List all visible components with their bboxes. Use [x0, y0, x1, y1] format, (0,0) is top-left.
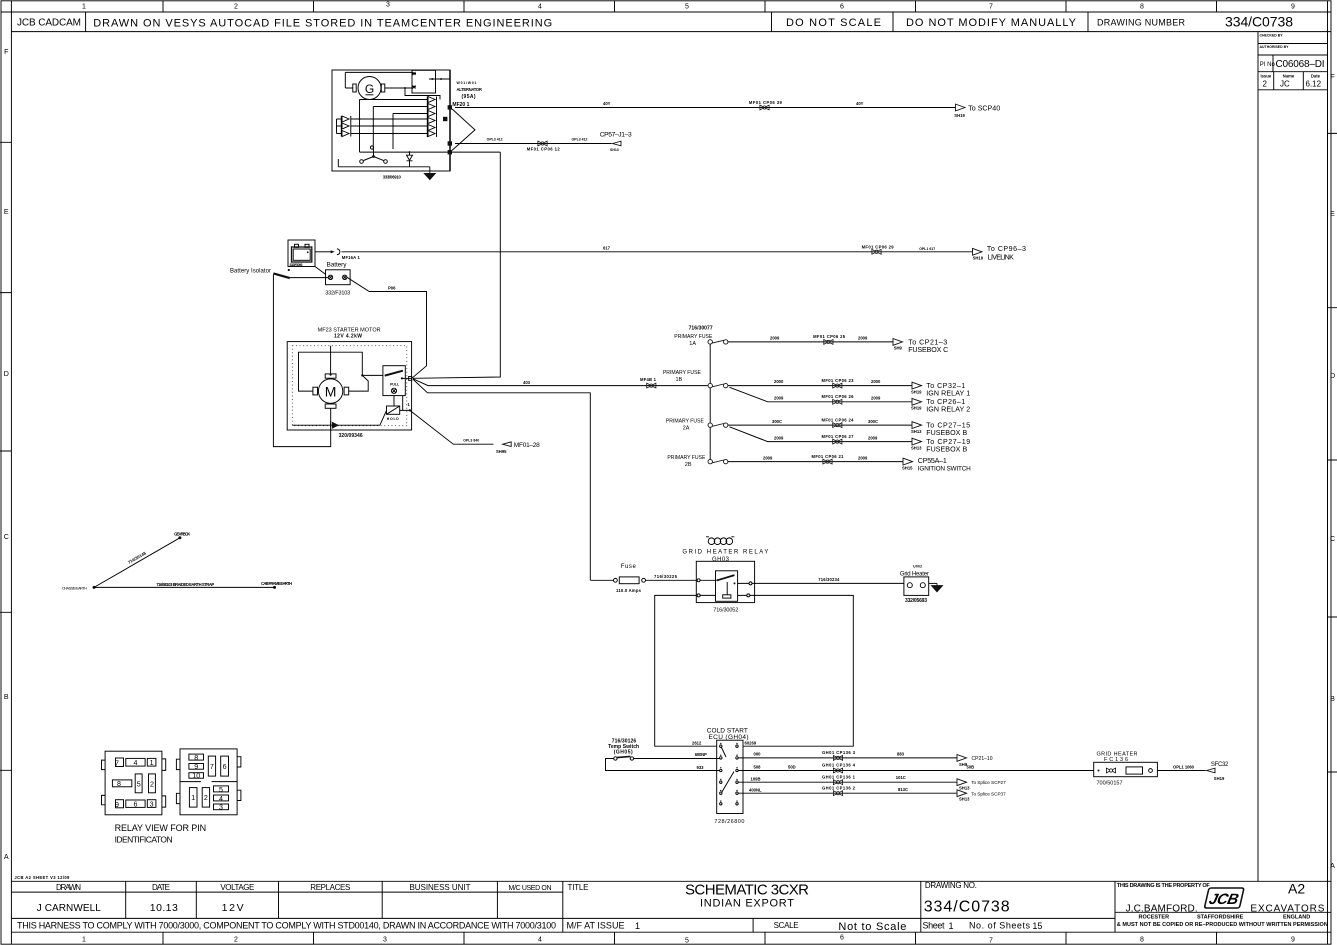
- svg-text:9: 9: [1291, 937, 1295, 944]
- svg-text:SCALE: SCALE: [774, 921, 799, 930]
- svg-text:Sheet: Sheet: [923, 921, 945, 931]
- svg-text:M: M: [325, 384, 337, 400]
- svg-text:716/30234: 716/30234: [818, 577, 840, 582]
- svg-text:12V: 12V: [222, 902, 244, 914]
- svg-text:2009: 2009: [858, 455, 868, 460]
- svg-text:MF01 CP06 25: MF01 CP06 25: [813, 334, 846, 339]
- svg-text:2009: 2009: [774, 435, 784, 440]
- svg-text:50B: 50B: [967, 765, 975, 770]
- svg-text:600NP: 600NP: [695, 752, 707, 757]
- svg-text:DO NOT SCALE: DO NOT SCALE: [786, 17, 881, 29]
- svg-text:JCB CADCAM: JCB CADCAM: [17, 18, 81, 29]
- svg-text:SH19: SH19: [954, 113, 965, 118]
- svg-text:9: 9: [1291, 4, 1295, 11]
- svg-text:SH19: SH19: [911, 406, 922, 411]
- svg-text:9: 9: [194, 763, 198, 771]
- svg-text:334/C0738: 334/C0738: [924, 899, 1010, 916]
- svg-text:2: 2: [234, 937, 238, 944]
- svg-text:SFC32: SFC32: [1211, 762, 1229, 768]
- svg-text:2009: 2009: [858, 336, 868, 341]
- svg-text:CAB FRAME EARTH: CAB FRAME EARTH: [261, 581, 292, 586]
- svg-text:SH15: SH15: [902, 466, 913, 471]
- svg-text:MF01 CP06 24: MF01 CP06 24: [822, 417, 855, 422]
- svg-text:4: 4: [538, 937, 542, 944]
- svg-text:1: 1: [150, 759, 154, 767]
- svg-text:No. of Sheets: No. of Sheets: [969, 921, 1031, 931]
- svg-text:60269: 60269: [745, 741, 757, 746]
- svg-text:8: 8: [117, 780, 121, 788]
- svg-text:D: D: [4, 370, 9, 378]
- svg-text:SH19: SH19: [1214, 776, 1225, 781]
- svg-text:101C: 101C: [896, 775, 906, 780]
- svg-text:DRAWN ON VESYS AUTOCAD FILE ST: DRAWN ON VESYS AUTOCAD FILE STORED IN TE…: [93, 18, 552, 30]
- svg-text:5: 5: [137, 780, 141, 788]
- svg-text:12V 4.2kW: 12V 4.2kW: [334, 333, 362, 339]
- svg-text:403: 403: [523, 380, 531, 385]
- svg-text:333/06910: 333/06910: [383, 175, 402, 180]
- svg-text:SH13: SH13: [911, 445, 922, 450]
- svg-text:508: 508: [754, 765, 762, 770]
- svg-text:4: 4: [134, 759, 138, 767]
- svg-text:MF20 1: MF20 1: [452, 102, 469, 108]
- svg-text:A: A: [1330, 862, 1335, 870]
- svg-text:40Y: 40Y: [603, 101, 611, 106]
- svg-text:OPL3 412: OPL3 412: [487, 138, 503, 142]
- svg-text:J CARNWELL: J CARNWELL: [37, 903, 101, 914]
- svg-text:110.0 Amps: 110.0 Amps: [616, 588, 642, 593]
- svg-text:RELAY VIEW FOR PIN: RELAY VIEW FOR PIN: [115, 823, 207, 833]
- svg-text:2: 2: [150, 780, 154, 788]
- svg-text:617: 617: [603, 246, 611, 251]
- svg-text:332/05693: 332/05693: [905, 598, 927, 604]
- svg-text:IGN RELAY 2: IGN RELAY 2: [926, 406, 970, 414]
- svg-text:PRIMARY FUSE: PRIMARY FUSE: [663, 370, 702, 376]
- svg-text:7: 7: [115, 760, 119, 768]
- svg-text:GEARBOX: GEARBOX: [174, 531, 190, 536]
- svg-text:MF01–28: MF01–28: [514, 442, 540, 449]
- svg-text:4: 4: [538, 4, 542, 11]
- svg-text:IDENTIFICATON: IDENTIFICATON: [115, 835, 173, 845]
- svg-text:109B: 109B: [751, 776, 761, 781]
- svg-text:2009: 2009: [868, 435, 878, 440]
- svg-text:SH13: SH13: [610, 148, 619, 152]
- svg-text:3: 3: [386, 2, 390, 9]
- svg-text:2: 2: [234, 4, 238, 11]
- svg-text:10: 10: [192, 772, 200, 780]
- svg-text:883: 883: [897, 752, 905, 757]
- svg-text:F: F: [4, 48, 9, 56]
- svg-text:C: C: [1330, 535, 1335, 543]
- svg-text:716/30077: 716/30077: [689, 326, 713, 332]
- svg-text:8: 8: [1140, 4, 1144, 11]
- svg-text:ROCESTER: ROCESTER: [1139, 914, 1170, 920]
- svg-text:OPL3 840: OPL3 840: [463, 439, 479, 443]
- svg-text:6.12: 6.12: [1306, 80, 1322, 89]
- svg-text:GH01 CP136 2: GH01 CP136 2: [822, 785, 856, 790]
- svg-text:1A: 1A: [689, 341, 696, 347]
- svg-text:& MUST NOT BE COPIED OR RE–PRO: & MUST NOT BE COPIED OR RE–PRODUCED WITH…: [1117, 922, 1328, 928]
- svg-text:OPL3 412: OPL3 412: [572, 138, 588, 142]
- svg-text:MF01 CP06 39: MF01 CP06 39: [749, 100, 783, 105]
- svg-text:OPL1 617: OPL1 617: [919, 247, 935, 251]
- svg-text:PULL: PULL: [390, 383, 400, 387]
- svg-text:To Splice SCP37: To Splice SCP37: [971, 791, 1006, 796]
- svg-text:50D: 50D: [788, 765, 796, 770]
- svg-text:332/F3096: 332/F3096: [290, 263, 303, 267]
- svg-text:2: 2: [1263, 80, 1268, 89]
- svg-text:SH19: SH19: [973, 255, 984, 260]
- svg-text:P06: P06: [388, 286, 396, 291]
- svg-text:MF16A 1: MF16A 1: [342, 255, 361, 260]
- svg-text:IGNITION SWITCH: IGNITION SWITCH: [918, 465, 971, 472]
- svg-text:REPLACES: REPLACES: [310, 883, 350, 892]
- svg-text:4: 4: [219, 795, 223, 803]
- svg-text:A2: A2: [1288, 881, 1305, 897]
- svg-text:2009: 2009: [871, 395, 881, 400]
- svg-text:To SCP40: To SCP40: [968, 104, 1000, 112]
- svg-text:(GH05): (GH05): [614, 750, 633, 756]
- svg-text:PRIMARY FUSE: PRIMARY FUSE: [674, 334, 713, 340]
- svg-text:334/C0738: 334/C0738: [1225, 14, 1293, 30]
- svg-text:AUTHORISED BY: AUTHORISED BY: [1260, 45, 1290, 49]
- svg-text:GH01 CP136 4: GH01 CP136 4: [822, 763, 856, 768]
- svg-text:DRAWING NO.: DRAWING NO.: [925, 881, 977, 890]
- svg-text:F: F: [1330, 73, 1335, 81]
- svg-text:DRAWN: DRAWN: [56, 883, 81, 892]
- svg-text:INDIAN EXPORT: INDIAN EXPORT: [700, 898, 794, 910]
- svg-text:Name: Name: [1283, 74, 1295, 79]
- svg-text:IGN RELAY 1: IGN RELAY 1: [926, 389, 970, 397]
- svg-text:DRAWING NUMBER: DRAWING NUMBER: [1097, 18, 1186, 28]
- svg-text:2A: 2A: [683, 426, 690, 432]
- svg-text:B: B: [1330, 695, 1335, 703]
- svg-text:GH01 CP136 1: GH01 CP136 1: [822, 774, 856, 779]
- svg-text:Fuse: Fuse: [621, 564, 637, 570]
- svg-text:E: E: [4, 208, 9, 216]
- svg-text:MF01 CP06 27: MF01 CP06 27: [822, 434, 855, 439]
- svg-text:GRID HEATER RELAY: GRID HEATER RELAY: [682, 550, 768, 556]
- svg-text:2009: 2009: [770, 336, 780, 341]
- svg-text:7: 7: [210, 763, 214, 771]
- svg-text:1: 1: [635, 921, 640, 931]
- svg-text:D: D: [1330, 372, 1335, 380]
- svg-text:3: 3: [219, 804, 223, 812]
- svg-text:6: 6: [840, 935, 844, 942]
- svg-text:PI No: PI No: [1260, 62, 1276, 68]
- svg-text:FUSEBOX C: FUSEBOX C: [908, 346, 948, 354]
- svg-text:2612: 2612: [692, 741, 702, 746]
- svg-text:DATE: DATE: [152, 883, 170, 892]
- svg-text:933: 933: [697, 765, 705, 770]
- svg-text:CP57–J1–3: CP57–J1–3: [600, 131, 632, 138]
- svg-text:2009: 2009: [774, 395, 784, 400]
- svg-text:MF01 CP06 29: MF01 CP06 29: [862, 245, 895, 250]
- svg-text:C06068–DI: C06068–DI: [1276, 59, 1325, 70]
- svg-text:1: 1: [949, 921, 954, 931]
- svg-text:8: 8: [194, 754, 198, 762]
- svg-text:9: 9: [115, 801, 119, 809]
- svg-text:HOLD: HOLD: [387, 417, 399, 421]
- svg-text:DO NOT MODIFY MANUALLY: DO NOT MODIFY MANUALLY: [906, 17, 1077, 29]
- svg-text:MF01 CP06 26: MF01 CP06 26: [822, 394, 855, 399]
- svg-text:SH9: SH9: [894, 345, 903, 350]
- svg-text:000: 000: [754, 752, 762, 757]
- svg-text:M/F AT ISSUE: M/F AT ISSUE: [567, 921, 625, 931]
- svg-text:FUSEBOX B: FUSEBOX B: [926, 429, 967, 437]
- svg-text:TITLE: TITLE: [568, 883, 589, 892]
- svg-text:A: A: [4, 853, 9, 861]
- svg-text:Battery: Battery: [327, 262, 348, 269]
- svg-text:Grid Heater: Grid Heater: [900, 571, 929, 577]
- svg-text:To CP96–3: To CP96–3: [987, 245, 1026, 253]
- svg-text:400NL: 400NL: [749, 787, 762, 792]
- svg-text:SCHEMATIC 3CXR: SCHEMATIC 3CXR: [685, 882, 809, 899]
- svg-text:J.C.BAMFORD.: J.C.BAMFORD.: [1126, 903, 1198, 914]
- svg-text:3: 3: [383, 937, 387, 944]
- svg-text:300C: 300C: [868, 419, 878, 424]
- svg-text:U002: U002: [913, 565, 922, 569]
- svg-text:5: 5: [685, 4, 689, 11]
- svg-text:2000: 2000: [871, 379, 881, 384]
- svg-text:JCB: JCB: [1207, 891, 1240, 908]
- svg-text:LIVELINK: LIVELINK: [988, 254, 1014, 262]
- svg-text:THIS HARNESS TO COMPLY WIT: THIS HARNESS TO COMPLY WITH 7000/3000, C…: [17, 921, 556, 931]
- svg-text:1: 1: [191, 794, 195, 802]
- svg-text:CP55A–1: CP55A–1: [918, 457, 947, 465]
- svg-text:OPL1 1060: OPL1 1060: [1173, 764, 1195, 769]
- svg-text:3: 3: [150, 801, 154, 809]
- svg-text:813C: 813C: [898, 787, 908, 792]
- svg-text:Not to Scale: Not to Scale: [838, 921, 906, 933]
- svg-text:6: 6: [134, 801, 138, 809]
- svg-text:MF01 CP06 21: MF01 CP06 21: [812, 454, 845, 459]
- svg-text:M/C USED ON: M/C USED ON: [509, 885, 552, 892]
- svg-text:VOLTAGE: VOLTAGE: [220, 883, 254, 892]
- svg-text:GH03: GH03: [712, 557, 730, 563]
- svg-text:JCB A2 SHEET V3 12/09: JCB A2 SHEET V3 12/09: [14, 875, 70, 880]
- svg-text:E: E: [1330, 210, 1335, 218]
- svg-text:2009: 2009: [763, 455, 773, 460]
- svg-text:W01/W01: W01/W01: [457, 81, 477, 85]
- svg-text:SH19: SH19: [911, 389, 922, 394]
- svg-text:700/50157: 700/50157: [1097, 780, 1123, 786]
- svg-text:716/30225: 716/30225: [654, 574, 678, 579]
- svg-text:320/09346: 320/09346: [339, 433, 363, 439]
- svg-text:CHECKED BY: CHECKED BY: [1260, 34, 1284, 38]
- svg-text:SH13: SH13: [959, 786, 970, 791]
- svg-text:8: 8: [1140, 937, 1144, 944]
- svg-text:CHASSIS EARTH: CHASSIS EARTH: [62, 587, 87, 591]
- svg-text:332/F3103: 332/F3103: [325, 290, 350, 296]
- svg-text:2000: 2000: [774, 379, 784, 384]
- svg-text:2B: 2B: [685, 462, 692, 468]
- svg-text:PRIMARY FUSE: PRIMARY FUSE: [667, 455, 706, 461]
- svg-text:BUSINESS UNIT: BUSINESS UNIT: [410, 883, 471, 892]
- svg-text:GH01 CP136 3: GH01 CP136 3: [822, 750, 856, 755]
- svg-text:PRIMARY FUSE: PRIMARY FUSE: [666, 419, 705, 425]
- svg-text:C: C: [4, 533, 9, 541]
- svg-text:MF01 CP06 23: MF01 CP06 23: [822, 378, 855, 383]
- svg-text:EXCAVATORS: EXCAVATORS: [1250, 903, 1324, 914]
- svg-text:CP21–10: CP21–10: [972, 756, 993, 762]
- svg-text:SH13: SH13: [911, 429, 922, 434]
- svg-text:SH13: SH13: [959, 796, 970, 801]
- svg-text:ENGLAND: ENGLAND: [1283, 914, 1310, 920]
- svg-text:B: B: [4, 693, 9, 701]
- svg-text:10.13: 10.13: [150, 902, 178, 914]
- svg-text:(95A): (95A): [462, 94, 476, 100]
- svg-text:To Splice SCP27: To Splice SCP27: [971, 780, 1006, 785]
- svg-text:MF4B 1: MF4B 1: [640, 377, 657, 382]
- svg-text:5: 5: [219, 786, 223, 794]
- svg-text:1: 1: [82, 937, 86, 944]
- svg-text:Battery Isolator: Battery Isolator: [230, 269, 271, 275]
- svg-text:300C: 300C: [772, 419, 782, 424]
- svg-text:THIS DRAWING IS THE PROPERTY O: THIS DRAWING IS THE PROPERTY OF: [1117, 883, 1211, 889]
- svg-text:MF01 CP06 12: MF01 CP06 12: [527, 146, 561, 151]
- svg-text:40Y: 40Y: [856, 101, 864, 106]
- svg-text:716/58103 BRAIDED EARTH STRAP: 716/58103 BRAIDED EARTH STRAP: [156, 582, 214, 587]
- svg-text:JC: JC: [1280, 80, 1290, 89]
- svg-text:Date: Date: [1311, 74, 1321, 79]
- svg-text:716/30052: 716/30052: [713, 607, 738, 613]
- svg-text:7: 7: [989, 4, 993, 11]
- svg-text:6: 6: [223, 763, 227, 771]
- svg-text:2: 2: [204, 794, 208, 802]
- svg-text:G: G: [365, 82, 374, 96]
- svg-text:728/26800: 728/26800: [714, 819, 744, 825]
- svg-text:SH95: SH95: [496, 449, 507, 454]
- svg-text:ALTERNATOR: ALTERNATOR: [457, 87, 482, 92]
- svg-text:7: 7: [989, 938, 993, 945]
- svg-text:5: 5: [685, 938, 689, 945]
- svg-text:Issue: Issue: [1260, 74, 1271, 79]
- svg-text:15: 15: [1032, 921, 1042, 931]
- svg-text:6: 6: [840, 4, 844, 11]
- svg-text:FUSEBOX B: FUSEBOX B: [926, 445, 967, 453]
- svg-text:1: 1: [82, 4, 86, 11]
- svg-text:STAFFORDSHIRE: STAFFORDSHIRE: [1197, 914, 1244, 920]
- svg-text:1B: 1B: [676, 377, 683, 383]
